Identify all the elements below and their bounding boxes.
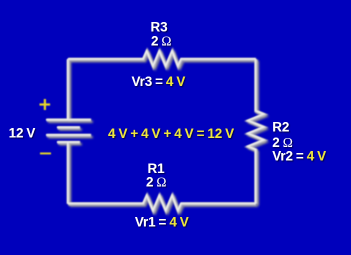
label 12 V (battery voltage) (9, 125, 36, 140)
battery B1 short plate (highlight) (57, 126, 80, 128)
wire right with resistor R2 (highlight) (248, 59, 264, 204)
battery B1 short plate (-) (mid) (58, 141, 81, 144)
svg-text:R3: R3 (151, 20, 168, 35)
value 2 ohm (R3) (151, 33, 171, 48)
label R2 (272, 120, 289, 135)
battery B1 short plate (mid) (58, 126, 81, 129)
svg-text:2 Ω: 2 Ω (146, 175, 166, 190)
wire right with resistor R2 (250, 61, 266, 206)
battery B1 long plate (mid) (47, 134, 92, 137)
battery B1 long plate (+) (highlight) (46, 119, 91, 121)
svg-text:2 Ω: 2 Ω (151, 33, 171, 48)
wire bottom with resistor R1 (70, 198, 258, 213)
label Vr2 = 4 V (272, 149, 326, 164)
wire top with resistor R3 (highlight) (68, 51, 256, 66)
wire top with resistor R3 (mid) (68, 51, 256, 66)
label Vr1 = 4 V (135, 214, 189, 229)
svg-text:Vr1 = 4 V: Vr1 = 4 V (135, 214, 189, 229)
wire bottom with resistor R1 (highlight) (68, 195, 256, 210)
equation 4 V + 4 V + 4 V = 12 V (108, 126, 234, 141)
wire left lower (from battery -) (69, 144, 71, 205)
svg-text:Vr3 = 4 V: Vr3 = 4 V (132, 74, 186, 89)
battery B1 short plate (59, 128, 82, 130)
svg-text:12 V: 12 V (9, 125, 36, 140)
battery B1 long plate (+) (mid) (47, 119, 92, 122)
battery minus sign (40, 153, 51, 155)
battery plus sign (40, 99, 51, 110)
label R1 (148, 161, 166, 176)
wire left lower (from battery -) (highlight) (67, 142, 69, 203)
wire left lower (from battery -) (mid) (67, 143, 70, 204)
battery B1 long plate (+) (48, 121, 93, 123)
value 2 ohm (R1) (146, 175, 166, 190)
wire top with resistor R3 (70, 53, 258, 68)
svg-text:R2: R2 (272, 120, 289, 135)
label Vr3 = 4 V (132, 74, 186, 89)
svg-text:4 V + 4 V + 4 V = 12 V: 4 V + 4 V + 4 V = 12 V (108, 126, 234, 141)
wire right with resistor R2 (mid) (248, 60, 264, 205)
wire left upper (to battery +) (mid) (67, 60, 70, 121)
wire left upper (to battery +) (69, 61, 71, 122)
label R3 (151, 20, 168, 35)
wire bottom with resistor R1 (mid) (68, 196, 256, 211)
battery B1 short plate (-) (highlight) (57, 141, 80, 143)
wire left upper (to battery +) (highlight) (67, 59, 69, 120)
svg-text:Vr2 = 4 V: Vr2 = 4 V (272, 149, 326, 164)
battery B1 long plate (highlight) (46, 134, 91, 136)
battery B1 short plate (-) (59, 143, 82, 145)
battery B1 long plate (48, 136, 93, 138)
value 2 ohm (R2) (272, 135, 292, 150)
